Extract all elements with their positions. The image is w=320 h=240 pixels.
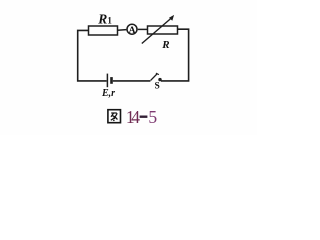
wire: left vertical + top-left + bottom-left run xyxy=(78,30,107,81)
rheostat R xyxy=(148,26,178,34)
resistor R1 xyxy=(89,26,118,35)
svg-text:4: 4 xyxy=(131,107,140,127)
wire: battery to switch xyxy=(113,80,151,82)
svg-text:5: 5 xyxy=(148,107,157,127)
switch right contact dot xyxy=(158,78,161,81)
rheostat arrow xyxy=(142,18,172,44)
wire: R1 to ammeter xyxy=(118,29,127,32)
svg-text:R: R xyxy=(97,11,107,26)
battery E,r : long plate xyxy=(106,74,108,88)
svg-text:E,r: E,r xyxy=(101,88,115,99)
switch S lever xyxy=(151,74,158,81)
svg-text:R: R xyxy=(161,39,169,51)
wire: right vertical + top-right + bottom-right run xyxy=(161,29,189,81)
switch tick xyxy=(156,73,159,75)
wire: ammeter to rheostat xyxy=(138,28,148,30)
svg-text:A: A xyxy=(129,26,136,36)
svg-text:1: 1 xyxy=(107,16,112,26)
ammeter A xyxy=(127,24,137,34)
svg-text:S: S xyxy=(155,82,160,92)
caption dash xyxy=(140,116,148,118)
battery short plate xyxy=(110,77,113,84)
caption character 图 xyxy=(108,110,121,123)
